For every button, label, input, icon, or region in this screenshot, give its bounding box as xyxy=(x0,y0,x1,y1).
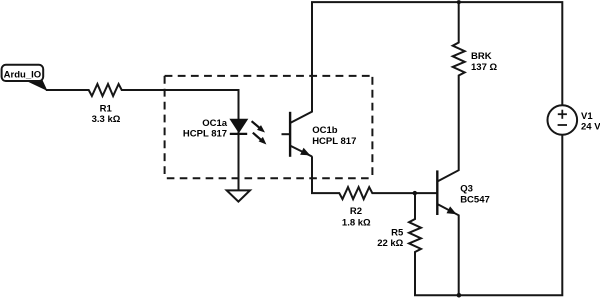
svg-text:24 V: 24 V xyxy=(581,122,600,133)
svg-text:1.8 kΩ: 1.8 kΩ xyxy=(342,217,371,228)
svg-text:R1: R1 xyxy=(100,103,113,114)
svg-text:22 kΩ: 22 kΩ xyxy=(377,238,403,249)
svg-text:BC547: BC547 xyxy=(460,195,490,206)
svg-text:HCPL 817: HCPL 817 xyxy=(312,136,356,147)
svg-text:OC1b: OC1b xyxy=(312,125,338,136)
svg-text:137 Ω: 137 Ω xyxy=(471,62,497,73)
svg-text:R2: R2 xyxy=(350,206,362,217)
svg-text:Ardu_IO: Ardu_IO xyxy=(4,70,41,81)
svg-text:3.3 kΩ: 3.3 kΩ xyxy=(92,114,121,125)
svg-text:BRK: BRK xyxy=(471,51,492,62)
svg-text:Q3: Q3 xyxy=(460,184,473,195)
svg-text:V1: V1 xyxy=(581,111,593,122)
svg-text:HCPL 817: HCPL 817 xyxy=(183,129,227,140)
svg-text:R5: R5 xyxy=(391,228,404,239)
svg-text:OC1a: OC1a xyxy=(202,118,228,129)
